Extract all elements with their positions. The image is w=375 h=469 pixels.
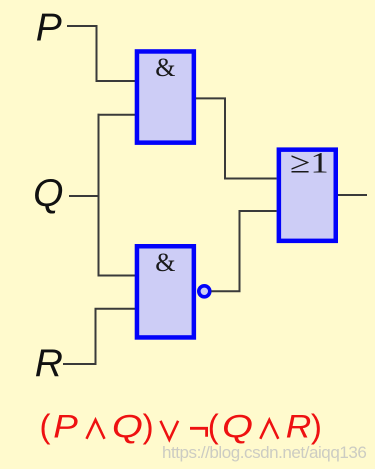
wire R to NAND gate U2 pin 2 xyxy=(63,309,137,364)
svg-text:): ) xyxy=(311,408,322,445)
wire Q to AND gate U1 pin 2 xyxy=(98,114,138,116)
wire U3 output xyxy=(338,194,367,196)
svg-text:&: & xyxy=(155,53,175,82)
wire P to AND gate U1 pin 1 xyxy=(67,26,137,81)
formula operator NOT xyxy=(190,428,207,437)
svg-text:R: R xyxy=(286,409,312,445)
svg-text:P: P xyxy=(53,409,78,445)
svg-text:Q: Q xyxy=(112,409,143,445)
wire Q stub xyxy=(69,195,99,197)
wire Q to NAND gate U2 pin 1 xyxy=(98,275,138,277)
formula operator AND (first) xyxy=(87,420,105,439)
svg-text:(: ( xyxy=(208,408,219,445)
AND gate U1 body xyxy=(137,51,194,142)
formula (P and Q) or not (Q and R) xyxy=(40,408,322,445)
wire U1 output to OR gate U3 pin 1 xyxy=(196,98,277,178)
NAND gate U2 body xyxy=(137,246,194,337)
svg-text:(: ( xyxy=(40,408,51,445)
svg-text:P: P xyxy=(36,7,62,50)
formula operator AND (second) xyxy=(260,420,278,439)
formula operator OR xyxy=(161,421,179,440)
svg-text:https://blog.csdn.net/aiqq136: https://blog.csdn.net/aiqq136 xyxy=(162,443,366,462)
svg-text:Q: Q xyxy=(222,409,253,445)
svg-text:R: R xyxy=(35,342,63,385)
svg-text:≥1: ≥1 xyxy=(290,146,329,179)
svg-text:&: & xyxy=(155,248,175,277)
NAND gate U2 output bubble xyxy=(199,286,210,297)
wire Q vertical bus xyxy=(98,114,100,277)
svg-text:): ) xyxy=(143,408,154,445)
svg-text:Q: Q xyxy=(33,172,63,215)
OR gate U3 body xyxy=(279,150,336,241)
wire U2 output to OR gate U3 pin 2 xyxy=(211,211,276,291)
